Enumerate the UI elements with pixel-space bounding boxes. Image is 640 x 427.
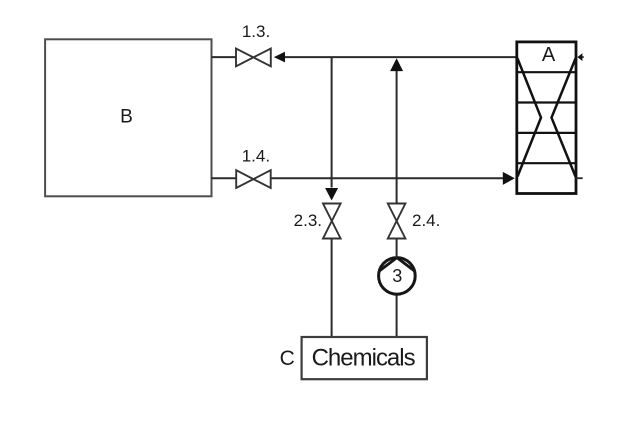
svg-text:3: 3: [392, 266, 402, 286]
svg-text:2.4.: 2.4.: [412, 211, 440, 230]
svg-text:C: C: [280, 347, 295, 370]
svg-text:A: A: [542, 44, 556, 66]
svg-text:Chemicals: Chemicals: [312, 344, 416, 371]
svg-text:1.4.: 1.4.: [242, 146, 270, 165]
svg-text:B: B: [120, 107, 133, 128]
svg-text:1.3.: 1.3.: [242, 22, 270, 41]
svg-text:2.3.: 2.3.: [294, 211, 322, 230]
